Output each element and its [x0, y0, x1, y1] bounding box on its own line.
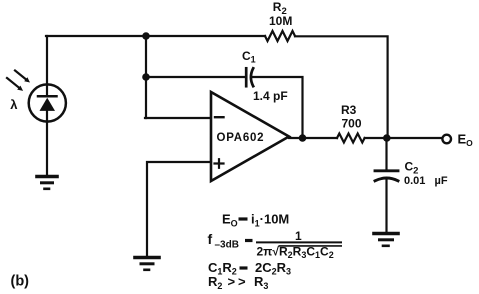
equation: f-3dB = 1/(2pi sqrt(R2R3C1C2))	[208, 229, 343, 260]
equation: Eo = i1 * 10M	[222, 212, 289, 229]
svg-text:700: 700	[342, 117, 362, 131]
wire: to inverting input	[145, 117, 211, 119]
svg-text:C1: C1	[242, 49, 256, 65]
svg-text:R3: R3	[341, 103, 357, 117]
light arrow 1	[15, 71, 30, 83]
wire: C2 down to ground	[385, 180, 387, 232]
svg-text:f–3dB: f–3dB	[208, 231, 239, 251]
capacitor C2	[375, 160, 448, 188]
terminal: output Eo	[442, 135, 451, 144]
equation: C1R2 = 2C2R3	[208, 260, 291, 277]
node: junction R2 feedback / C2	[383, 134, 391, 142]
node: junction output / C1 feedback	[299, 134, 307, 142]
node: junction top rail / inverting branch	[142, 32, 150, 40]
wire: R3 to output terminal	[365, 137, 442, 139]
resistor R3	[337, 103, 365, 143]
svg-text:EO: EO	[458, 132, 474, 149]
wire: non-inverting input to ground	[147, 162, 211, 256]
svg-text:C1R22C2R3: C1R22C2R3	[208, 260, 291, 277]
capacitor C1	[242, 49, 288, 103]
wire: inverting branch vertical	[145, 36, 147, 118]
svg-text:C2: C2	[405, 160, 419, 177]
photodiode D1	[29, 84, 66, 121]
wire: photodiode cathode riser to top rail	[46, 36, 48, 85]
ground: below C2	[374, 234, 398, 246]
svg-text:OPA602: OPA602	[217, 132, 265, 144]
svg-text:EOi1·10M: EOi1·10M	[222, 212, 289, 229]
node: junction inverting branch / C1 branch	[142, 73, 150, 81]
wire: C1 branch right segment down to output node	[252, 77, 303, 136]
wire: top rail right segment down to output node	[295, 36, 388, 136]
wire: output node down to C2	[385, 138, 387, 169]
ground: below photodiode	[37, 177, 57, 189]
svg-text:λ: λ	[10, 97, 18, 112]
ground: below non-inverting input	[135, 258, 159, 270]
resistor R2	[265, 0, 295, 41]
light arrow 2	[7, 78, 23, 91]
op-amp U1 OPA602	[211, 92, 289, 181]
wire: top rail left segment to R2	[46, 35, 265, 37]
wire: C1 branch left segment	[146, 76, 246, 78]
wire: photodiode anode down to ground	[46, 121, 48, 175]
svg-text:10M: 10M	[269, 14, 292, 28]
svg-text:1: 1	[295, 229, 302, 243]
equation: R2 >> R3	[208, 274, 268, 291]
svg-text:0.01µF: 0.01µF	[404, 175, 448, 187]
svg-text:1.4 pF: 1.4 pF	[253, 89, 288, 103]
wire: op-amp output to R3	[289, 137, 337, 139]
svg-text:(b): (b)	[11, 274, 30, 290]
svg-text:R2>>R3: R2>>R3	[208, 274, 268, 291]
